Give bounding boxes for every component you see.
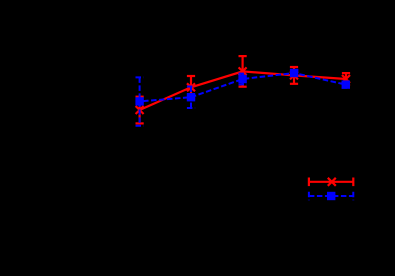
red X marker 5 (342, 75, 350, 83)
blue series square markers (135, 69, 350, 106)
red X marker 4 (290, 71, 298, 79)
red series error bars (136, 56, 351, 123)
red X marker 3 (239, 67, 247, 75)
blue square marker 3 (238, 75, 246, 83)
blue errorbar point 2 (187, 87, 195, 109)
red series line (140, 71, 346, 110)
red X marker 2 (187, 83, 195, 91)
red series X markers (136, 67, 350, 114)
red errorbar point 2 (187, 76, 195, 99)
blue series dashed line (140, 73, 346, 101)
blue errorbar point 1 (136, 77, 144, 125)
blue errorbar point 4 (290, 70, 298, 76)
red X marker 1 (136, 106, 144, 114)
legend red sample (309, 178, 353, 187)
legend red X marker (328, 178, 336, 186)
legend blue square marker (327, 192, 335, 200)
blue square marker 5 (342, 80, 350, 88)
red errorbar point 1 (136, 97, 144, 124)
red errorbar point 5 (342, 73, 350, 85)
red errorbar point 4 (290, 67, 298, 84)
blue series error bars (dashed) (136, 70, 350, 126)
blue errorbar point 5 (342, 82, 350, 88)
red errorbar point 3 (239, 56, 247, 87)
blue square marker 4 (290, 69, 298, 77)
blue square marker 2 (187, 93, 195, 101)
blue errorbar point 3 (239, 74, 247, 85)
blue square marker 1 (135, 97, 143, 105)
legend blue sample (309, 192, 353, 201)
